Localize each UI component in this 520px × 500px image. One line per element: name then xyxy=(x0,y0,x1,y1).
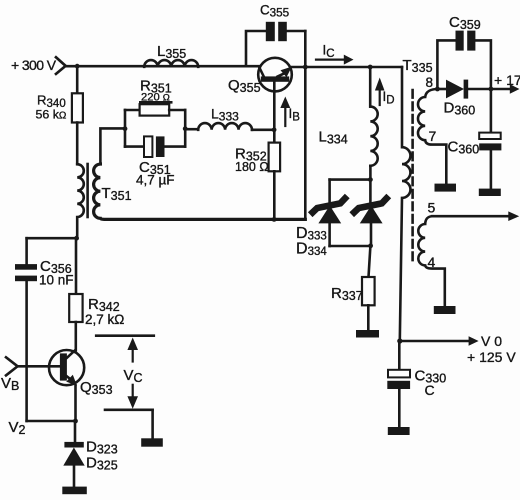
svg-text:L334: L334 xyxy=(319,129,348,147)
svg-text:Q353: Q353 xyxy=(80,379,113,397)
transformer T351 secondary winding + bottom rail xyxy=(94,164,306,219)
ground (C330) xyxy=(388,427,410,435)
wire: R352 to bottom rail xyxy=(273,171,276,219)
svg-text:Q355: Q355 xyxy=(228,77,261,95)
wire: pin 8 to D360 xyxy=(437,88,446,91)
wire: C355 left branch xyxy=(246,31,266,66)
capacitor C360 xyxy=(479,133,501,151)
wire: node to R342 xyxy=(75,238,78,294)
node A (+300V / R340 junction) xyxy=(75,64,80,69)
svg-text:L355: L355 xyxy=(157,43,186,61)
svg-text:D334: D334 xyxy=(296,240,327,258)
svg-text:56 kΩ: 56 kΩ xyxy=(36,108,67,122)
wire: top arm right xyxy=(169,109,185,112)
transformer T351 primary winding xyxy=(77,164,84,238)
diode D360 xyxy=(446,80,468,99)
svg-text:5: 5 xyxy=(428,200,436,216)
wire: VC bottom line to ground xyxy=(151,410,154,439)
wire: zener loop bottom xyxy=(330,245,371,248)
svg-text:R337: R337 xyxy=(331,285,363,303)
wire: R340 bottom lead to T351 primary xyxy=(76,123,79,165)
transistor Q353 xyxy=(49,350,84,386)
wire: C355 right branch xyxy=(287,30,306,33)
wire: node to R352 xyxy=(273,130,276,143)
zener diode D334 xyxy=(354,198,386,223)
transformer T335 winding 8-7 xyxy=(418,89,446,184)
wire: node to C330 xyxy=(398,341,401,370)
capacitor C356 xyxy=(15,264,37,281)
svg-text:C359: C359 xyxy=(449,14,481,32)
wire: T351 secondary top to RC network xyxy=(100,128,125,164)
wire: L333 to base node xyxy=(252,129,274,132)
node (Q355 base / R352) xyxy=(272,127,277,132)
resistor R337 xyxy=(362,277,375,305)
wire: zener loop top xyxy=(330,178,371,181)
+300V input terminal chevron xyxy=(56,57,66,74)
node (RC right) xyxy=(183,126,188,131)
transformer T351 core xyxy=(86,164,89,217)
wire: Q355 base lead xyxy=(273,82,276,130)
output arrow +17 xyxy=(468,84,519,94)
wire: +300V rail to Q355 collector xyxy=(66,65,259,68)
VC measurement bottom line xyxy=(105,408,153,411)
wire: C359 left branch xyxy=(437,40,455,89)
svg-text:D325: D325 xyxy=(86,455,118,473)
wire: C360 to ground xyxy=(490,150,493,188)
svg-text:+ 300 V: + 300 V xyxy=(11,57,57,73)
node (C355 branch on emitter rail) xyxy=(303,65,308,70)
wire: V2 horizontal to emitter node xyxy=(27,420,76,423)
RC network right vertical xyxy=(184,110,187,147)
svg-text:10 nF: 10 nF xyxy=(39,273,74,288)
svg-text:V2: V2 xyxy=(9,419,26,437)
output arrow V0 xyxy=(400,336,479,346)
wire: output to C360 xyxy=(490,89,493,133)
svg-text:4: 4 xyxy=(428,254,436,270)
wire: C330 to ground xyxy=(398,389,401,427)
current arrow IB xyxy=(280,97,290,127)
VC down arrow xyxy=(127,385,138,409)
svg-text:D360: D360 xyxy=(444,100,476,118)
node (pin 8) xyxy=(435,87,440,92)
wire: L334 bottom to zener node xyxy=(369,166,372,180)
node (zener bottom junction) xyxy=(368,243,373,248)
capacitor C359 xyxy=(456,31,476,51)
ground (VC) xyxy=(141,438,163,446)
svg-text:C: C xyxy=(425,382,435,398)
output arrow winding 5 xyxy=(432,211,519,221)
wire: R340 top lead xyxy=(76,66,79,93)
wire: node to D323 xyxy=(74,421,77,442)
svg-text:+ 17: + 17 xyxy=(494,72,520,88)
wire: RC to L333 xyxy=(185,128,198,131)
wire: top arm left xyxy=(125,109,140,112)
inductor L334 xyxy=(370,107,377,166)
node (V0 junction) xyxy=(397,338,402,343)
wire: Q355 emitter to T335 primary corner xyxy=(292,66,402,69)
wire: D334 top lead xyxy=(369,180,372,202)
node (zener top junction) xyxy=(368,177,373,182)
transformer T335 primary winding xyxy=(400,67,411,341)
wire: VB to Q353 base xyxy=(18,365,60,368)
svg-text:180 Ω: 180 Ω xyxy=(235,160,269,174)
node (R352 on bottom rail) xyxy=(272,217,277,222)
transformer T335 winding 5-4 xyxy=(418,216,444,306)
ground (D323) xyxy=(62,487,87,495)
inductor L355 xyxy=(144,60,198,67)
VC measurement top line xyxy=(96,334,154,337)
resistor R342 xyxy=(69,294,82,322)
wire: rail down to L334 xyxy=(369,67,372,107)
current arrow ID xyxy=(375,78,385,106)
ground (C360) xyxy=(479,189,501,196)
underline (220 Ohm) xyxy=(139,101,173,104)
capacitor C351 xyxy=(144,136,165,157)
current arrow IC xyxy=(316,55,354,65)
svg-text:+ 125 V: + 125 V xyxy=(467,349,516,365)
wire: R337 bottom lead xyxy=(367,305,370,330)
RC network left vertical xyxy=(124,110,127,147)
svg-text:4,7 µF: 4,7 µF xyxy=(136,173,175,188)
resistor R340 xyxy=(72,93,83,122)
node (T351 primary bottom / C356 / R342) xyxy=(74,236,79,241)
wire: D333 top lead xyxy=(328,180,331,202)
wire: D323 to ground xyxy=(73,466,76,487)
VC up arrow xyxy=(127,338,138,362)
input terminal chevron VB xyxy=(6,357,18,375)
node (ID branch on rail) xyxy=(368,65,373,70)
wire: node to C356 xyxy=(27,237,77,240)
wire: D334 bottom lead xyxy=(370,223,373,246)
svg-text:2,7 kΩ: 2,7 kΩ xyxy=(85,312,124,327)
resistor R352 xyxy=(269,143,281,172)
ground (R337) xyxy=(356,330,379,338)
wire: zener node to R337 xyxy=(369,246,371,277)
svg-text:IC: IC xyxy=(323,43,335,61)
svg-text:7: 7 xyxy=(429,128,437,144)
wire: bottom arm right xyxy=(165,145,186,148)
svg-text:ID: ID xyxy=(383,89,395,107)
ground (pin 4) xyxy=(434,306,456,314)
zener diode D333 xyxy=(313,198,345,223)
wire: Q353 emitter down to V2 node xyxy=(74,385,77,421)
wire: C356 down to V2 corner xyxy=(25,281,28,421)
transformer T335 core (dashed) xyxy=(411,90,414,264)
svg-text:8: 8 xyxy=(426,75,434,90)
wire: C355 right vertical down to bottom rail xyxy=(304,31,307,219)
wire: C359 right branch xyxy=(475,40,491,89)
svg-text:IB: IB xyxy=(289,106,301,124)
svg-text:C355: C355 xyxy=(260,3,290,20)
ground (pin 7) xyxy=(435,184,457,192)
node (C359/C360 junction on output) xyxy=(489,87,494,92)
capacitor C355 xyxy=(266,22,275,41)
wire: R342 to Q353 collector xyxy=(75,322,78,350)
svg-text:VC: VC xyxy=(124,367,143,385)
capacitor C330 xyxy=(387,370,410,389)
svg-text:T335: T335 xyxy=(403,57,433,75)
svg-text:V 0: V 0 xyxy=(481,333,502,349)
diode D323/D325 xyxy=(63,442,84,466)
svg-text:T351: T351 xyxy=(102,185,132,203)
svg-text:L333: L333 xyxy=(211,106,239,124)
resistor R351 xyxy=(140,104,170,115)
svg-text:VB: VB xyxy=(1,375,19,393)
inductor L333 xyxy=(198,123,252,130)
wire: bottom arm left xyxy=(125,145,144,148)
node (V2 / emitter junction) xyxy=(73,419,78,424)
svg-text:C360: C360 xyxy=(448,139,480,157)
wire: D333 bottom lead xyxy=(328,223,331,246)
node (RC left) xyxy=(123,126,128,131)
transistor Q355 xyxy=(258,58,292,92)
